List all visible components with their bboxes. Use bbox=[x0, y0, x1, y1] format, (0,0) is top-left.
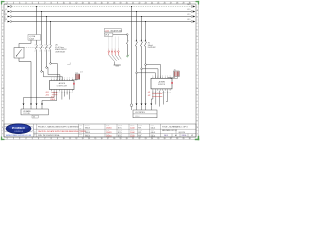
svg-text:LSZH BS5467: LSZH BS5467 bbox=[55, 52, 65, 54]
title block cell DATE bbox=[106, 124, 112, 138]
svg-text:N.T.S.: N.T.S. bbox=[118, 128, 123, 130]
svg-text:CHKD: CHKD bbox=[138, 134, 142, 136]
bus line PE bbox=[12, 6, 191, 8]
tap terminal circle to module A1 input 2 bbox=[46, 67, 60, 81]
plug connector X11 by module A2 bbox=[174, 69, 180, 76]
svg-text:DWG: DWG bbox=[151, 134, 154, 136]
bus L2 left source arrow terminal bbox=[5, 14, 12, 17]
red terminal 1 of switch Q10 bbox=[108, 49, 110, 55]
ruler tick marks top and bottom edges bbox=[7, 1, 190, 139]
junction circle auxiliary riser top bbox=[127, 34, 129, 36]
svg-text:N.T.S.: N.T.S. bbox=[118, 132, 123, 134]
bus L3 right destination arrow terminal bbox=[187, 19, 195, 22]
tap terminal circle to module A2 input 2 bbox=[141, 68, 158, 78]
label box Q10 main tag bbox=[104, 29, 122, 33]
svg-text:POWER: POWER bbox=[12, 126, 25, 130]
svg-text:X11: X11 bbox=[174, 69, 176, 71]
green corner mark top-right bbox=[196, 1, 200, 5]
title block sheet cells bbox=[164, 134, 193, 137]
svg-text:3x400V+N+PE: 3x400V+N+PE bbox=[5, 9, 7, 22]
wire connector X10 to module A1 bbox=[72, 79, 77, 80]
bus L1 right destination arrow terminal bbox=[187, 9, 195, 12]
red wire markers module A1 bottom-left bbox=[45, 92, 57, 97]
module A2 pin stubs bbox=[153, 77, 170, 91]
wire control riser from PE bus bbox=[131, 7, 133, 104]
label box Q10 secondary tag bbox=[104, 33, 113, 37]
terminal arrow X1 at x36.5 bbox=[36, 103, 38, 109]
bus L2 right destination arrow terminal bbox=[187, 14, 195, 17]
annotation text fuse F2 rating bbox=[148, 43, 157, 50]
module A1 pin numbers bbox=[51, 77, 73, 94]
cable tag box below strip X1 bbox=[32, 115, 38, 118]
svg-text:MONITOR: MONITOR bbox=[158, 84, 166, 86]
fuse F2 pole 2 bbox=[140, 40, 143, 46]
terminal arrow X3 at x136.5 bbox=[136, 103, 138, 110]
title block cell DWG bbox=[151, 125, 156, 138]
svg-text:T.MILLS: T.MILLS bbox=[85, 132, 90, 134]
svg-text:X10: X10 bbox=[75, 72, 78, 74]
svg-text:T.MILLS: T.MILLS bbox=[85, 136, 90, 138]
title block cell CHKD bbox=[138, 125, 142, 138]
bus PE left source arrow terminal bbox=[5, 4, 12, 7]
svg-text:PROJECT - MAIN INCOMING SUPPLY: PROJECT - MAIN INCOMING SUPPLY & METERIN… bbox=[38, 125, 79, 128]
ruler grid numbers top and bottom bbox=[7, 3, 192, 141]
bus line L2 bbox=[12, 16, 191, 18]
svg-text:1 2 3 N PE: 1 2 3 N PE bbox=[23, 113, 30, 115]
svg-text:044-01: 044-01 bbox=[151, 128, 156, 130]
terminal arrow X1 at x31.0 bbox=[30, 103, 32, 109]
bus L3 left source arrow terminal bbox=[5, 19, 12, 22]
svg-text:12/04/21: 12/04/21 bbox=[106, 128, 112, 130]
svg-text:CONTROLLER: CONTROLLER bbox=[57, 86, 68, 88]
faint feed wires into switch Q10 bbox=[109, 36, 119, 50]
sheet outer ruler frame bbox=[1, 1, 198, 139]
label box Q1 device tag bbox=[28, 35, 41, 41]
svg-text:-X1:4: -X1:4 bbox=[51, 96, 55, 98]
svg-text:22x58 HRC: 22x58 HRC bbox=[148, 47, 157, 49]
svg-text:WWW.POWERCONTROLS.CO.UK: WWW.POWERCONTROLS.CO.UK bbox=[6, 135, 32, 137]
svg-text:-X2:2: -X2:2 bbox=[45, 95, 49, 97]
svg-text:N.T.S.: N.T.S. bbox=[118, 136, 123, 138]
wires connector X11 to module A2 pins bbox=[168, 77, 177, 79]
svg-text:JOB No: JOB No bbox=[130, 125, 135, 127]
green corner mark bottom-left bbox=[1, 137, 5, 141]
green earth mark near riser bbox=[126, 55, 129, 57]
reference flag mid-left bbox=[67, 63, 70, 65]
title block outer frame bbox=[4, 124, 196, 137]
green corner mark top-left bbox=[1, 1, 5, 5]
wire below pole 1 bbox=[36, 49, 38, 103]
breaker pole contact 1 on drop x36.5 bbox=[35, 45, 38, 53]
terminal arrow X3 at x141.5 bbox=[141, 103, 143, 110]
switch Q10 pole blades bbox=[109, 55, 121, 62]
terminal arrow X1 at x42.0 bbox=[41, 103, 43, 109]
bus PE right destination arrow terminal bbox=[187, 4, 195, 7]
pilot lamp on control riser bbox=[130, 104, 133, 110]
svg-text:JOB No: JOB No bbox=[130, 134, 135, 136]
terminal arrow X3 at x145.5 bbox=[145, 103, 147, 110]
red note above strip X1 bbox=[51, 96, 56, 100]
svg-text:TITLE - SCHEMATIC 1 OF 3: TITLE - SCHEMATIC 1 OF 3 bbox=[162, 126, 188, 129]
svg-text:CHKD: CHKD bbox=[138, 130, 142, 132]
svg-text:DWG: DWG bbox=[151, 130, 154, 132]
svg-text:W1: W1 bbox=[33, 116, 35, 118]
svg-text:PE.1: PE.1 bbox=[187, 4, 191, 6]
module A1 output wires down bbox=[24, 91, 70, 103]
relay module A1 body bbox=[50, 81, 75, 90]
wire Q10 label to auxiliary riser bbox=[113, 34, 127, 36]
svg-text:DRN. TM 12/04/2021 REV.A: DRN. TM 12/04/2021 REV.A bbox=[38, 134, 60, 137]
svg-text:12/04/21: 12/04/21 bbox=[106, 136, 112, 138]
svg-text:SH.01: SH.01 bbox=[164, 135, 168, 137]
tap terminal circle to module A1 input 3 bbox=[41, 71, 63, 81]
svg-text:21-044: 21-044 bbox=[130, 128, 135, 130]
svg-text:JOB No: JOB No bbox=[130, 130, 135, 132]
bus line L3 bbox=[12, 21, 191, 23]
svg-text:21-044: 21-044 bbox=[130, 132, 135, 134]
breaker pole contact 2 on drop x41.5 bbox=[40, 45, 43, 53]
switch Q10 common bar bbox=[114, 62, 121, 66]
terminal arrow X3 at x151.3 bbox=[150, 103, 152, 110]
wire label box to breaker Q1 bbox=[19, 40, 31, 48]
tap terminal circle to module A1 input 1 bbox=[50, 63, 58, 81]
svg-text:CHKD: CHKD bbox=[138, 125, 142, 127]
svg-text:J: J bbox=[2, 69, 3, 71]
svg-text:1/3: 1/3 bbox=[191, 135, 193, 137]
green corner mark bottom-right bbox=[195, 136, 199, 140]
red terminal 3 of switch Q10 bbox=[114, 49, 116, 55]
module A1 pin stubs bbox=[52, 79, 73, 92]
ruler grid letters left and right bbox=[2, 9, 199, 136]
red terminal 4 of switch Q10 bbox=[118, 49, 120, 55]
svg-text:-K1: -K1 bbox=[148, 92, 151, 94]
svg-text:ENG: ENG bbox=[79, 134, 82, 136]
svg-text:CHK: CHK bbox=[79, 130, 82, 132]
wire fuse drop 1 bbox=[136, 12, 138, 104]
svg-text:-X3 CONTROL: -X3 CONTROL bbox=[135, 112, 145, 114]
terminal strip X3 body bbox=[133, 110, 157, 118]
wire L2 drop to Q1 pole 2 bbox=[41, 12, 43, 46]
wire L3 drop to Q1 pole 3 bbox=[46, 17, 48, 46]
title block cell DRAWN bbox=[85, 124, 90, 138]
svg-text:-K2: -K2 bbox=[148, 95, 151, 97]
terminal arrow X1 at x23.5 bbox=[23, 103, 25, 109]
svg-text:CONTROLS: CONTROLS bbox=[14, 131, 23, 133]
svg-text:4C+E 10mm: 4C+E 10mm bbox=[55, 47, 65, 49]
breaker pole contact 4 on drop x50.5 bbox=[49, 45, 52, 53]
svg-text:-X2:1: -X2:1 bbox=[45, 92, 49, 94]
svg-text:044-01: 044-01 bbox=[151, 136, 156, 138]
terminal strip X1 body bbox=[21, 109, 48, 115]
svg-text:M: M bbox=[196, 88, 198, 90]
svg-text:J: J bbox=[197, 69, 198, 71]
tap terminal circle to module A2 input 1 bbox=[145, 64, 161, 79]
wire auxiliary riser bbox=[126, 35, 128, 56]
auxiliary contact on riser bbox=[126, 41, 128, 44]
bus line L1 bbox=[12, 11, 191, 13]
svg-text:21-044: 21-044 bbox=[130, 136, 135, 138]
module A2 output wires down bbox=[151, 91, 167, 107]
red status dot module A1 right edge bbox=[73, 83, 74, 85]
svg-text:T.MILLS: T.MILLS bbox=[85, 128, 90, 130]
junction dots right feeder taps bbox=[131, 6, 146, 22]
svg-text:M: M bbox=[2, 88, 4, 90]
red status dot module A2 right edge bbox=[171, 82, 172, 84]
svg-text:-F2: -F2 bbox=[148, 43, 151, 45]
junction dots left feeder taps bbox=[36, 6, 51, 22]
title block TITLE text bbox=[162, 126, 188, 134]
wire Q1 output to distribution riser bbox=[19, 62, 31, 104]
svg-text:L1.1: L1.1 bbox=[187, 9, 190, 11]
svg-text:L2.1: L2.1 bbox=[187, 14, 190, 16]
company logo oval bbox=[3, 124, 33, 134]
svg-text:1 2 3 4: 1 2 3 4 bbox=[135, 116, 139, 118]
title block cell JOB No bbox=[130, 125, 135, 138]
svg-text:/2.4: /2.4 bbox=[80, 72, 83, 74]
wire below pole 2 bbox=[41, 49, 43, 71]
wire N drop bbox=[50, 22, 52, 46]
svg-text:L3.1: L3.1 bbox=[187, 19, 190, 21]
red terminal 2 of switch Q10 bbox=[111, 49, 113, 55]
svg-text:400V 3PH: 400V 3PH bbox=[179, 132, 185, 134]
svg-text:-W1: -W1 bbox=[55, 45, 58, 47]
module A2 pin numbers bbox=[152, 75, 171, 94]
red wire markers module A2 bottom-left bbox=[148, 92, 163, 97]
fuse F2 pole 1 bbox=[135, 40, 138, 46]
soft starter module A2 body bbox=[151, 78, 172, 89]
bus L1 left source arrow terminal bbox=[5, 9, 12, 12]
title block grid lines bbox=[34, 124, 197, 137]
circuit breaker Q1 body bbox=[14, 48, 24, 62]
svg-text:DWG: DWG bbox=[151, 125, 154, 127]
title block approval column text bbox=[79, 124, 82, 138]
breaker pole contact 3 on drop x46.5 bbox=[45, 45, 48, 53]
svg-text:044-01: 044-01 bbox=[151, 132, 156, 134]
wire fuse drop 2 bbox=[141, 17, 143, 104]
fuse F2 pole 3 bbox=[144, 40, 147, 46]
wire L1 drop to Q1 pole 1 bbox=[36, 7, 38, 46]
wire below pole 3 bbox=[46, 49, 48, 67]
plug connector X10 by module A1 bbox=[75, 72, 80, 79]
ruler tick marks left and right edges bbox=[1, 7, 198, 131]
title block cell SCALE bbox=[118, 124, 123, 138]
svg-text:-Q10: -Q10 bbox=[105, 30, 109, 32]
wire below pole 4 bbox=[50, 49, 52, 63]
tap terminal circle to module A2 input 3 bbox=[136, 72, 156, 78]
wire fuse drop 3 bbox=[145, 22, 147, 104]
mechanical linkage Q1 dashed bbox=[24, 46, 51, 48]
annotation text cable spec left feeder bbox=[55, 45, 68, 54]
svg-text:12/04/21: 12/04/21 bbox=[106, 132, 112, 134]
